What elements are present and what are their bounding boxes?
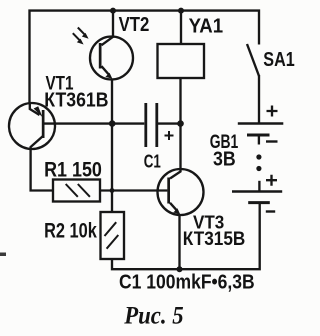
resistor R1 (53, 180, 100, 202)
wire C1 to collector line (158, 122, 181, 124)
node junction C1 collector (177, 120, 184, 127)
svg-text:YA1: YA1 (189, 16, 224, 38)
svg-text:R1 150: R1 150 (44, 159, 102, 182)
node bottom emitter junction (177, 266, 183, 272)
svg-text:КТ361В: КТ361В (44, 90, 108, 112)
svg-text:КТ315В: КТ315В (183, 229, 246, 250)
wire top rail with left and right corners (30, 11, 260, 104)
transistor VT3 (158, 169, 204, 215)
wire VT1 base to C1 (45, 122, 145, 124)
wire VT2 emitter node vertical (111, 79, 113, 212)
capacitor C1 (144, 103, 173, 147)
battery GB1 (232, 106, 283, 212)
svg-text:С1 100mkF•6,3В: С1 100mkF•6,3В (119, 272, 255, 294)
node top rail YA1 (178, 8, 184, 14)
node junction divider (110, 188, 115, 193)
wire VT3 emitter down (178, 215, 180, 270)
svg-text:SA1: SA1 (263, 49, 294, 71)
transistor VT2 (90, 11, 133, 80)
svg-text:Рис. 5: Рис. 5 (123, 301, 184, 330)
relay YA1 (158, 11, 205, 78)
wire R1 to VT3 base (100, 189, 167, 191)
svg-text:C1: C1 (144, 150, 161, 171)
transistor VT1 (9, 103, 55, 191)
wire YA1 to VT3 collector (170, 78, 181, 179)
light arrows (73, 28, 89, 45)
switch SA1 (247, 44, 259, 124)
svg-text:VT2: VT2 (119, 13, 150, 36)
node junction base C1 (109, 120, 116, 127)
svg-text:3В: 3В (213, 149, 236, 171)
node top rail VT2 (110, 8, 116, 14)
svg-text:R2 10k: R2 10k (44, 220, 97, 243)
wire bottom rail from R2 to battery (112, 203, 260, 270)
resistor R2 (101, 212, 125, 259)
